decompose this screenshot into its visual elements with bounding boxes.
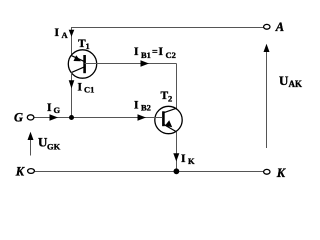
svg-text:K: K [276,166,287,180]
T2 base bar [162,111,165,126]
svg-text:I: I [134,46,139,58]
T2 collector diagonal [163,108,176,113]
svg-text:K: K [188,156,195,166]
svg-text:GK: GK [47,142,61,152]
arrow I_K (downward) [173,153,179,161]
T2 emitter diagonal with NPN arrow outward [163,124,176,132]
junction node: T2 emitter / cathode rail [174,168,180,174]
voltage arrow U_GK (upward) [30,135,32,156]
svg-text:U: U [279,73,289,88]
svg-text:I: I [55,27,60,39]
arrow I_G (rightward) [50,114,59,120]
wire: gate rail from G terminal to T2 base [34,117,162,119]
junction node: gate / T1 collector [69,115,74,120]
svg-text:I: I [181,153,186,165]
terminal K right (open circle) [264,169,270,174]
wire: T2 emitter down to cathode rail [176,132,178,172]
svg-text:AK: AK [289,79,303,89]
transistor T1 (PNP) circle [68,50,96,78]
svg-text:I: I [134,100,139,112]
wire: vertical segment top rail to T1 emitter [71,27,73,56]
wire: T1 base lead to the right [85,63,177,65]
svg-text:I: I [78,82,83,94]
svg-text:B2: B2 [141,103,151,113]
svg-text:A: A [275,20,284,34]
svg-text:A: A [62,30,69,40]
terminal G (open circle) [27,115,34,120]
wire: top rail from T1 emitter corner to anode terminal [71,27,264,29]
svg-text:C1: C1 [84,85,94,95]
svg-text:=: = [152,47,158,58]
transistor T2 (NPN) circle [155,106,182,133]
terminal A (open circle) [264,24,270,29]
T1 base bar [83,55,86,73]
svg-text:I: I [159,46,164,58]
svg-text:K: K [15,165,26,179]
svg-text:I: I [47,102,52,114]
arrow I_B1 (rightward) [141,60,150,66]
svg-text:2: 2 [168,94,172,104]
svg-text:1: 1 [86,41,90,51]
svg-text:B1: B1 [141,50,151,60]
svg-text:C2: C2 [166,50,176,60]
wire: vertical from base rail corner down to T2 collector [176,64,178,109]
svg-text:G: G [14,110,23,124]
voltage arrow U_AK (upward) [266,47,268,148]
wire: T1 collector down to gate node [71,73,73,118]
svg-text:G: G [54,105,61,115]
T1 collector diagonal [71,67,84,73]
wire: bottom cathode rail [35,171,264,173]
T1 emitter diagonal with PNP arrow toward base [71,56,84,62]
arrow I_C1 (downward) [69,80,75,88]
arrow I_B2 (rightward) [138,114,147,120]
arrow I_A (downward) [69,30,75,37]
terminal K left (open circle) [28,169,35,174]
